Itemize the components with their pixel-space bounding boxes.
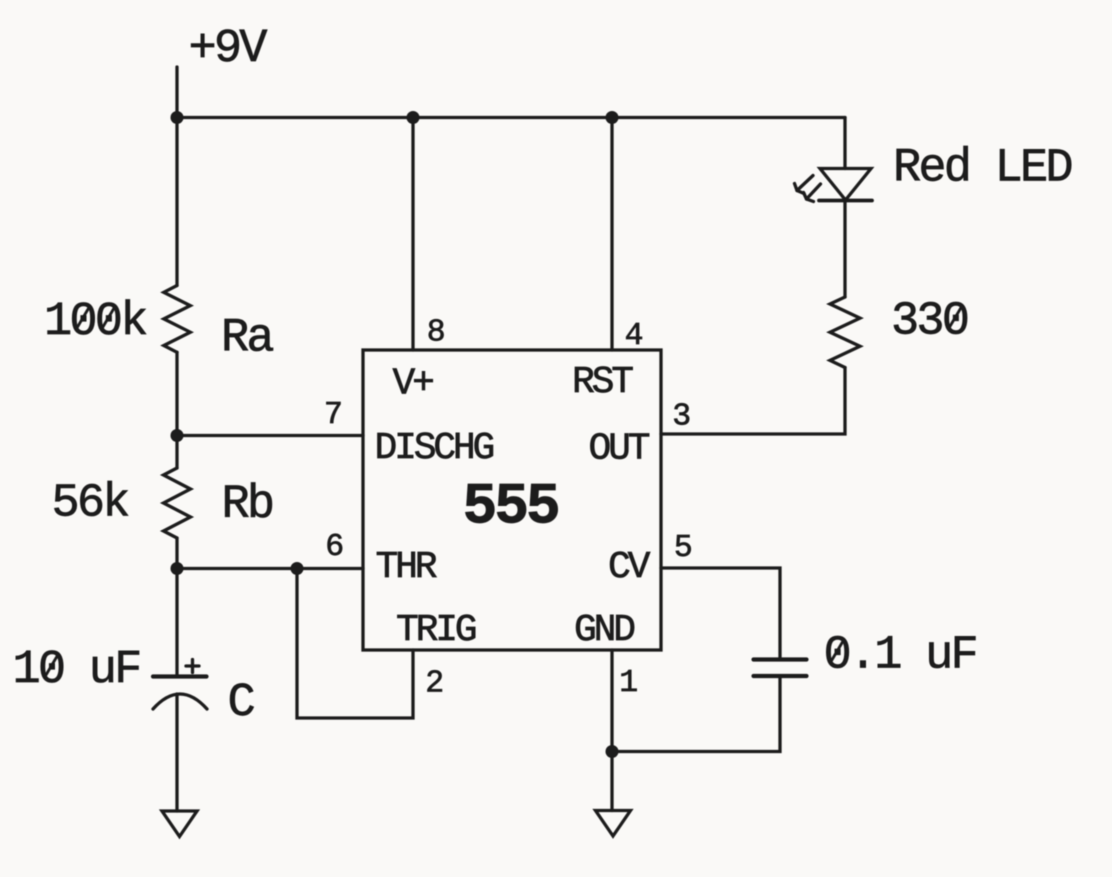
svg-text:CV: CV <box>608 546 651 589</box>
junction dot DISCHG node <box>171 429 184 442</box>
capacitor C plus sign <box>186 664 199 667</box>
svg-text:OUT: OUT <box>589 427 650 470</box>
svg-text:6: 6 <box>325 530 344 565</box>
slash of zero in 100k (first) <box>77 307 89 328</box>
ground left <box>162 811 197 837</box>
svg-text:1: 1 <box>619 666 638 701</box>
svg-text:100k: 100k <box>44 296 146 349</box>
capacitor C2 0.1uF top plate <box>754 657 807 661</box>
resistor Rb zigzag <box>164 468 191 538</box>
svg-text:GND: GND <box>574 609 634 652</box>
svg-text:DISCHG: DISCHG <box>375 427 494 470</box>
wire pin4 RST <box>610 118 613 351</box>
junction dot top rail pin4 <box>606 111 619 124</box>
wire pin1 GND <box>610 650 613 752</box>
resistor R330 zigzag <box>830 297 860 368</box>
svg-text:2: 2 <box>425 667 444 702</box>
svg-text:THR: THR <box>376 546 437 589</box>
wire pin6 THR <box>177 567 363 570</box>
wire pin7 DISCHG <box>177 434 363 437</box>
svg-text:Rb: Rb <box>222 479 273 532</box>
svg-text:Ra: Ra <box>221 312 273 365</box>
wire LED to R330 <box>843 201 846 298</box>
svg-text:3: 3 <box>672 400 691 435</box>
svg-text:10 uF: 10 uF <box>13 644 140 697</box>
svg-text:TRIG: TRIG <box>396 609 476 652</box>
svg-text:4: 4 <box>625 319 644 354</box>
wire pin8 V+ <box>411 118 414 351</box>
svg-text:0.1 uF: 0.1 uF <box>824 629 976 682</box>
capacitor C bottom curved plate <box>153 694 207 709</box>
slash of zero in 0.1 uF <box>831 640 843 661</box>
junction dot top rail left <box>171 111 184 124</box>
resistor Ra zigzag <box>164 286 191 353</box>
LED D1 cathode bar <box>819 199 872 203</box>
wire R330 to OUT <box>661 368 845 435</box>
svg-text:8: 8 <box>427 316 446 351</box>
svg-text:330: 330 <box>891 295 968 348</box>
junction dot THR node left <box>171 562 184 575</box>
svg-text:+9V: +9V <box>189 23 268 76</box>
LED D1 arrow 2 <box>807 184 821 199</box>
junction dot THR node trig <box>291 562 304 575</box>
capacitor C2 0.1uF bottom plate <box>754 674 807 678</box>
svg-text:Red LED: Red LED <box>893 142 1071 195</box>
wire Rb to THR node <box>175 538 178 569</box>
svg-text:56k: 56k <box>52 477 129 530</box>
LED D1 arrow 1 <box>797 176 813 191</box>
LED D1 triangle <box>820 169 871 201</box>
wire left rail to Ra <box>175 118 178 286</box>
wire Ra to DISCHG node <box>175 352 178 435</box>
wire GND node to ground <box>610 752 613 811</box>
junction dot GND node <box>606 745 619 758</box>
op-amp U1 555 box <box>363 350 661 650</box>
ground right <box>596 811 631 837</box>
svg-text:7: 7 <box>324 398 343 433</box>
svg-text:C: C <box>228 677 255 730</box>
junction dot top rail pin8 <box>407 111 420 124</box>
wire C2 to GND node <box>612 676 780 752</box>
svg-text:555: 555 <box>463 475 558 540</box>
wire top rail <box>177 116 845 119</box>
node +9V supply stub <box>175 67 178 118</box>
wire pin5 CV <box>661 568 780 660</box>
wire DISCHG node to Rb <box>175 436 178 469</box>
wire THR node down to capacitor C <box>175 569 178 677</box>
capacitor C top plate <box>153 674 207 678</box>
svg-text:RST: RST <box>572 361 633 404</box>
wire pin2 TRIG loop <box>297 569 413 719</box>
slash of zero in 100k (second) <box>102 307 114 328</box>
slash of zero in 10 uF <box>46 655 58 676</box>
slash of zero in 330 <box>949 306 961 327</box>
svg-text:5: 5 <box>674 531 693 566</box>
wire right rail to LED <box>843 118 846 169</box>
wire capacitor C to ground <box>175 694 178 811</box>
svg-text:V+: V+ <box>393 362 434 405</box>
